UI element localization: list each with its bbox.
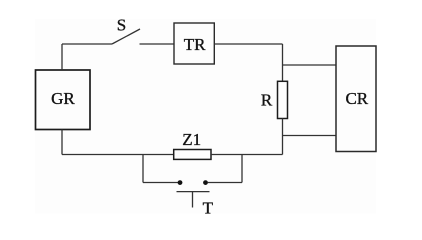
box GR — [36, 70, 91, 130]
resistor R — [278, 81, 288, 118]
pushbutton T stem — [192, 192, 194, 208]
wire — [211, 154, 283, 156]
wire — [214, 43, 282, 45]
svg-text:T: T — [203, 198, 214, 217]
svg-text:TR: TR — [184, 35, 206, 54]
wire — [61, 44, 63, 70]
wire — [241, 155, 243, 183]
svg-text:CR: CR — [345, 89, 368, 108]
wire — [282, 44, 284, 81]
box CR — [336, 46, 376, 152]
svg-text:GR: GR — [51, 89, 75, 108]
box TR — [174, 23, 214, 64]
wire — [142, 155, 144, 183]
wire — [283, 64, 337, 66]
wire — [283, 135, 337, 137]
junction dot — [203, 180, 208, 185]
wire — [143, 182, 178, 184]
resistor Z1 — [174, 150, 211, 160]
wire — [140, 43, 175, 45]
wire — [282, 119, 284, 155]
wire — [62, 43, 112, 45]
wire — [62, 154, 174, 156]
svg-text:S: S — [117, 15, 126, 34]
svg-text:Z1: Z1 — [182, 130, 201, 149]
pushbutton T bar — [177, 191, 210, 193]
svg-text:R: R — [261, 91, 273, 110]
wire — [61, 130, 63, 155]
junction dot — [178, 180, 183, 185]
wire — [208, 182, 243, 184]
switch S — [112, 29, 140, 44]
